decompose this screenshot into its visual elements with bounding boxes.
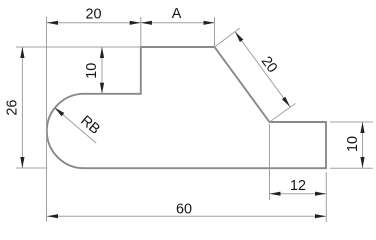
dimension 60 bottom: right arrow	[315, 214, 326, 218]
dimension A top: left arrow	[141, 21, 152, 25]
dimension 60 bottom: line	[47, 215, 326, 217]
dimension 26 left: top arrow	[20, 47, 24, 58]
dimension 10 right: label 10	[345, 136, 361, 152]
svg-text:10: 10	[345, 136, 361, 152]
part outline	[47, 47, 326, 168]
radius leader RB: arrow	[55, 108, 65, 117]
dimension 60 bottom: left arrow	[47, 214, 58, 218]
svg-text:20: 20	[85, 7, 101, 23]
dimension 10 notch: top arrow	[100, 47, 104, 58]
dimension A top: line	[141, 22, 215, 24]
dimension 10 right: line	[362, 122, 364, 168]
dimension A top: right arrow	[204, 21, 215, 25]
dimension 26 left: line	[21, 47, 23, 168]
svg-text:60: 60	[176, 202, 192, 218]
svg-text:26: 26	[4, 100, 20, 116]
dimension 20 chamfer: upper arrow	[235, 32, 243, 42]
extension line bottom-left horizontal y=168	[16, 167, 46, 169]
dimension 12 bottom: left arrow	[270, 192, 281, 196]
extension line left vertical x=47	[46, 17, 48, 222]
extension line right x=326	[325, 172, 327, 222]
extension line chamfer-top x=214.5	[214, 17, 216, 47]
dimension 10 notch: label 10	[84, 63, 100, 79]
dimension 20 top: left arrow	[47, 21, 58, 25]
extension line chamfer upper	[215, 28, 240, 47]
radius leader RB: line	[55, 108, 97, 144]
dimension 10 notch: bottom arrow	[100, 83, 104, 94]
extension line step x=140.5	[140, 17, 142, 47]
dimension 20 chamfer: line	[235, 32, 290, 107]
radius leader RB: label RB	[77, 113, 103, 138]
dimension 10 right: bottom arrow	[360, 157, 364, 168]
dimension 12 bottom: right arrow	[315, 192, 326, 196]
extension line bottom-right horizontal y=168	[330, 167, 373, 169]
dimension 20 chamfer: lower arrow	[282, 97, 290, 107]
dimension 20 top: line	[47, 22, 141, 24]
extension line tab-left x=269.5	[269, 124, 271, 200]
svg-text:12: 12	[290, 178, 306, 194]
extension line chamfer lower	[270, 104, 296, 123]
dimension 12 bottom: line	[270, 193, 327, 195]
dimension 10 right: top arrow	[360, 122, 364, 133]
svg-text:10: 10	[84, 63, 100, 79]
dimension 10 notch: line	[101, 47, 103, 94]
svg-text:A: A	[172, 6, 182, 22]
dimension 20 top: right arrow	[130, 21, 141, 25]
dimension 26 left: bottom arrow	[20, 157, 24, 168]
extension line top horizontal y=47	[16, 46, 141, 48]
dimension 26 left: label 26	[4, 100, 20, 116]
extension line tab-top horizontal y=122	[330, 121, 373, 123]
dimension 20 chamfer: label 20	[258, 54, 280, 76]
